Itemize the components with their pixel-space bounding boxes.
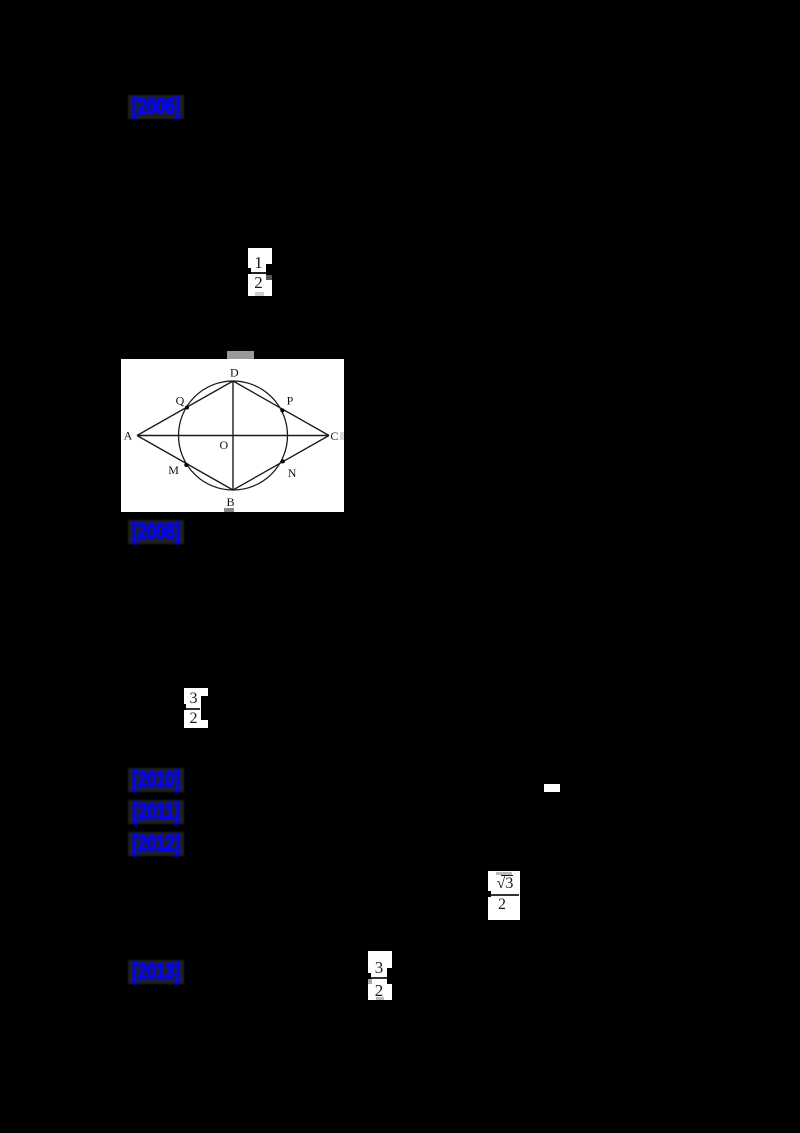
side AD xyxy=(137,381,233,436)
white dash xyxy=(544,784,560,792)
diagonal AC xyxy=(137,435,329,437)
blue tag 3 xyxy=(128,768,184,792)
side DC xyxy=(233,381,329,436)
blue tag 2 xyxy=(128,520,184,544)
diagonal DB xyxy=(232,381,234,490)
svg-text:N: N xyxy=(288,466,297,480)
svg-text:P: P xyxy=(287,394,294,408)
svg-text:D: D xyxy=(230,366,239,380)
dot P xyxy=(280,409,284,413)
dot M xyxy=(184,463,188,467)
side BA xyxy=(137,436,233,491)
svg-text:C: C xyxy=(330,429,338,443)
circle xyxy=(179,381,288,490)
svg-text:M: M xyxy=(168,463,179,477)
fraction 3/2 xyxy=(184,688,208,728)
blue tag 1 xyxy=(128,95,184,119)
blue tag 5 xyxy=(128,832,184,856)
svg-text:A: A xyxy=(124,429,133,443)
svg-text:O: O xyxy=(219,438,228,452)
svg-text:Q: Q xyxy=(176,394,185,408)
dot Q xyxy=(185,406,189,410)
fraction 3/2 second xyxy=(368,951,392,1000)
geometry figure xyxy=(121,359,344,512)
fraction sqrt3/2 xyxy=(488,871,520,920)
side CB xyxy=(233,436,329,491)
gray smudge below B xyxy=(224,508,234,512)
fraction 1/2 xyxy=(248,248,272,296)
gray smudge above figure xyxy=(227,351,254,359)
dot N xyxy=(281,459,285,463)
blue tag 4 xyxy=(128,800,184,824)
blue tag 6 xyxy=(128,960,184,984)
svg-text:B: B xyxy=(226,495,234,509)
